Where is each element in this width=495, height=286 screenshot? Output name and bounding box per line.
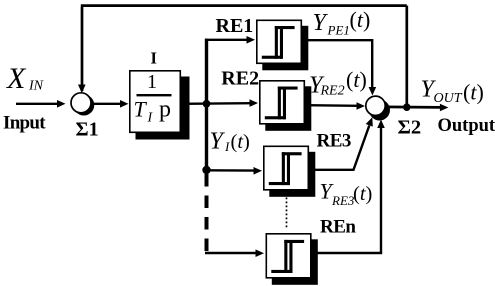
svg-text:T: T (134, 97, 148, 122)
svg-text:(t): (t) (463, 80, 484, 105)
svg-text:Y: Y (210, 129, 226, 155)
svg-text:(t): (t) (350, 7, 371, 32)
svg-text:Output: Output (438, 116, 495, 136)
svg-text:RE3: RE3 (317, 131, 351, 152)
svg-text:Input: Input (3, 113, 46, 134)
svg-text:1: 1 (147, 71, 157, 93)
svg-text:RE2: RE2 (221, 67, 259, 89)
svg-text:(t): (t) (353, 183, 372, 205)
svg-text:I: I (151, 48, 157, 67)
svg-text:(t): (t) (346, 67, 367, 92)
svg-text:RE3: RE3 (331, 193, 355, 208)
svg-text:RE1: RE1 (216, 15, 254, 37)
svg-text:PE1: PE1 (327, 23, 350, 38)
svg-text:REn: REn (320, 217, 356, 238)
svg-text:(t): (t) (231, 131, 250, 153)
svg-text:IN: IN (28, 79, 44, 94)
svg-text:Σ2: Σ2 (398, 117, 422, 139)
svg-text:p: p (159, 97, 171, 123)
svg-text:OUT: OUT (434, 91, 463, 106)
svg-text:Y: Y (313, 10, 329, 36)
svg-text:I: I (224, 139, 230, 154)
svg-text:RE2: RE2 (320, 84, 345, 99)
svg-text:X: X (6, 62, 27, 95)
svg-text:Σ1: Σ1 (76, 119, 99, 141)
